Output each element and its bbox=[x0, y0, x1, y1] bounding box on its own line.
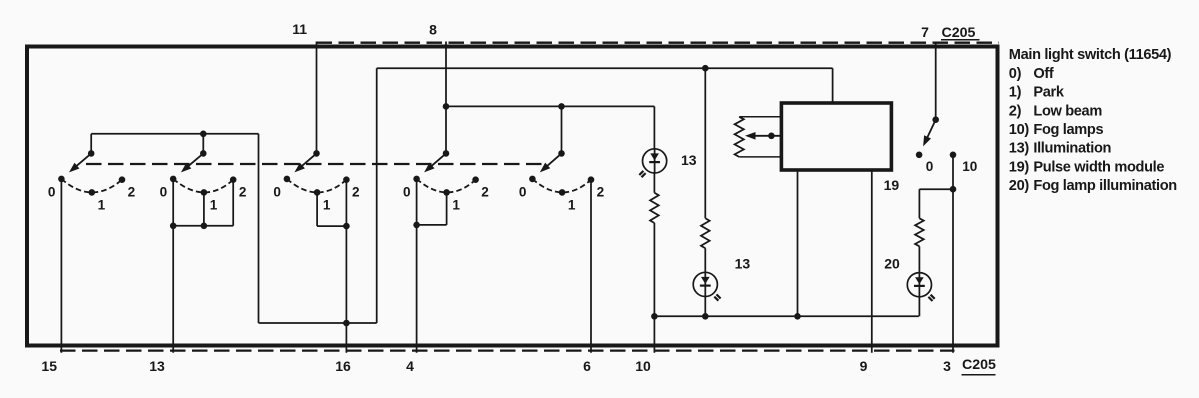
wire: pin 7 lead to fog switch pivot bbox=[935, 42, 937, 120]
svg-text:13: 13 bbox=[735, 255, 751, 271]
wire: lower horizontal run to riser of pulse width module feed bbox=[259, 322, 377, 324]
wire: top illumination resistor to return bus bbox=[653, 223, 655, 353]
svg-text:Fog lamp illumination: Fog lamp illumination bbox=[1033, 178, 1177, 194]
svg-text:3: 3 bbox=[943, 358, 951, 374]
svg-text:Fog lamps: Fog lamps bbox=[1033, 122, 1103, 138]
connector label C205 top bbox=[941, 25, 980, 41]
node: switch 2 tie junction at contact 0 lead bbox=[170, 223, 177, 230]
svg-text:11: 11 bbox=[292, 21, 307, 37]
rotary switch wafer 5 (pin 6) bbox=[519, 150, 605, 212]
svg-text:C205: C205 bbox=[942, 25, 976, 41]
wire: fog lamp illumination branch to resistor bbox=[918, 189, 920, 218]
mechanical coupling dashed line bbox=[86, 163, 544, 165]
wire: pin 13 lead from switch 2 contact 0 bbox=[172, 179, 174, 353]
node: return bus at pin 10 lead bbox=[651, 313, 658, 320]
legend text block bbox=[1009, 47, 1177, 194]
wire: pin 3 lead from fog switch contact 10 bbox=[952, 155, 954, 353]
svg-text:9: 9 bbox=[860, 358, 868, 374]
resistor of lower illumination branch bbox=[701, 218, 710, 248]
connector label C205 bottom bbox=[962, 357, 997, 375]
node: junction of pivot feed and switch 2 riser bbox=[200, 131, 207, 138]
wire: pin 4 lead from switch 4 contact 0 bbox=[416, 179, 418, 353]
wire: horizontal feed from switch 1 pivot to switch 2 and down-lead corner bbox=[91, 133, 258, 135]
wire: switch 4 contact 1 drop bbox=[446, 192, 448, 225]
node: return bus at module lead bbox=[794, 313, 801, 320]
svg-text:10: 10 bbox=[635, 358, 651, 374]
svg-text:0: 0 bbox=[926, 159, 934, 174]
svg-text:15: 15 bbox=[41, 358, 57, 374]
wire: pulse width module top lead bbox=[832, 68, 834, 104]
node: junction with pin 16 lead bbox=[343, 320, 350, 327]
svg-text:20: 20 bbox=[884, 255, 900, 271]
svg-text:1: 1 bbox=[568, 198, 576, 213]
wire: return bus bbox=[654, 315, 919, 317]
resistor of upper illumination lamp bbox=[650, 193, 659, 223]
svg-text:10: 10 bbox=[962, 159, 977, 174]
svg-text:10): 10) bbox=[1009, 122, 1030, 138]
svg-text:8: 8 bbox=[429, 21, 437, 37]
rotary switch wafer 3 (pin 16) bbox=[273, 150, 360, 212]
svg-text:19): 19) bbox=[1009, 159, 1030, 175]
svg-text:1: 1 bbox=[323, 198, 331, 213]
wire: fog lamp illumination branch horizontal bbox=[919, 188, 953, 190]
wire: illumination branch drop to resistor bbox=[704, 68, 706, 218]
svg-text:0: 0 bbox=[519, 184, 527, 199]
LED indicator 13 (lower illumination lamp) bbox=[693, 272, 720, 300]
rotary switch wafer 1 (park feed) bbox=[48, 150, 136, 212]
svg-text:16: 16 bbox=[335, 358, 351, 374]
svg-text:Pulse width module: Pulse width module bbox=[1033, 159, 1164, 175]
svg-text:Off: Off bbox=[1033, 66, 1054, 82]
fog lamp switch (pins 7/3) bbox=[916, 116, 978, 174]
svg-text:1: 1 bbox=[210, 198, 218, 213]
wire: illumination branch resistor to LED bbox=[704, 248, 706, 272]
wire: switch 4 contact tie bus bbox=[417, 224, 447, 226]
svg-text:0: 0 bbox=[160, 184, 168, 199]
LED indicator 20 (fog lamp illumination) bbox=[907, 273, 934, 301]
wire: pin 9 lead from pulse width module bbox=[871, 170, 873, 353]
svg-text:13: 13 bbox=[149, 358, 165, 374]
wire: illumination branch LED to return bus bbox=[704, 297, 706, 317]
wire: pin 10 lead / illumination return drop bbox=[653, 106, 655, 148]
svg-text:C205: C205 bbox=[962, 357, 996, 373]
svg-text:2: 2 bbox=[239, 185, 247, 200]
svg-text:1): 1) bbox=[1009, 85, 1022, 101]
resistor of fog lamp illumination branch bbox=[915, 218, 924, 246]
svg-text:1: 1 bbox=[98, 198, 106, 213]
potentiometer wiper arrow bbox=[745, 132, 781, 140]
svg-text:0: 0 bbox=[48, 184, 56, 199]
node: junction of module feed and illumination lamp branch bbox=[702, 65, 709, 72]
svg-text:13: 13 bbox=[681, 152, 697, 168]
node: junction switch 5 riser and illumination feed bbox=[558, 103, 565, 110]
wire: pin 6 lead from switch 5 contact 2 bbox=[590, 180, 592, 353]
svg-text:2: 2 bbox=[128, 185, 136, 200]
wire: switch 2 contact 1 drop bbox=[203, 192, 205, 225]
svg-text:4: 4 bbox=[406, 358, 414, 374]
node: junction fog lamp illumination branch on pin 3 lead bbox=[950, 186, 957, 193]
wire: illumination feed from pin 8 to top LED drop bbox=[446, 105, 654, 107]
wire: switch 5 pivot riser bbox=[561, 106, 563, 153]
rotary switch wafer 2 (pin 13) bbox=[160, 150, 247, 212]
potentiometer inside module 19 bbox=[735, 117, 744, 157]
LED indicator 13 (upper illumination lamp) bbox=[639, 149, 666, 177]
wire: switch 2 contact tie bus bbox=[173, 225, 233, 227]
wire: potentiometer top lead bbox=[739, 116, 781, 118]
wire: module bottom-left lead to return bus bbox=[797, 170, 799, 317]
svg-text:Low beam: Low beam bbox=[1033, 103, 1102, 119]
svg-text:20): 20) bbox=[1009, 178, 1030, 194]
svg-text:0): 0) bbox=[1009, 66, 1022, 82]
connector C205 bottom dashed line bbox=[60, 349, 955, 351]
node: switch 4 tie junction on pin 4 lead bbox=[413, 222, 420, 229]
connector C205 top dashed line bbox=[317, 42, 1000, 44]
svg-text:0: 0 bbox=[273, 184, 281, 199]
main light switch assembly box bbox=[27, 47, 998, 346]
svg-text:2: 2 bbox=[352, 185, 360, 200]
node: switch 3 tie junction on pin 16 lead bbox=[343, 223, 350, 230]
rotary switch wafer 4 (pin 4) bbox=[403, 150, 489, 212]
svg-text:2): 2) bbox=[1009, 103, 1022, 119]
node: junction pin 8 line and illumination feed bbox=[443, 103, 450, 110]
wire: top illumination LED to resistor bbox=[653, 173, 655, 193]
wire: switch 1 pivot riser bbox=[90, 134, 92, 154]
wire: switch 3 contact 1 drop bbox=[316, 192, 318, 226]
wire: fog lamp resistor to LED bbox=[918, 246, 920, 272]
wire: pin 16 lead from switch 3 contact 2 bbox=[345, 180, 347, 353]
svg-text:19: 19 bbox=[884, 177, 900, 193]
wire: switch 3 contact tie bus bbox=[317, 225, 346, 227]
wire: fog lamp LED to return bus bbox=[918, 297, 920, 317]
svg-text:13): 13) bbox=[1009, 141, 1030, 157]
svg-text:2: 2 bbox=[597, 185, 605, 200]
node: return bus at illumination branch bbox=[702, 313, 709, 320]
wire: potentiometer bottom lead bbox=[739, 156, 781, 158]
wire: riser from lower run to module feed line bbox=[376, 68, 378, 323]
wire: pin 15 lead from switch 1 contact 0 bbox=[60, 179, 62, 353]
svg-text:0: 0 bbox=[403, 184, 411, 199]
svg-text:Park: Park bbox=[1033, 85, 1064, 101]
wire: module feed line to pulse width module bbox=[377, 67, 833, 69]
wire: vertical drop from pivot feed to lower run bbox=[258, 134, 260, 323]
wire: switch 2 contact 2 drop bbox=[232, 180, 234, 226]
pulse width module U19 box bbox=[781, 103, 891, 170]
svg-text:2: 2 bbox=[481, 185, 489, 200]
svg-text:7: 7 bbox=[921, 24, 929, 40]
wire: switch 2 pivot riser bbox=[202, 134, 204, 154]
node: switch 2 tie junction at contact 1 lead bbox=[201, 223, 208, 230]
wire: pin 8 lead to switch 4 pivot bbox=[445, 42, 447, 154]
svg-text:Main light switch (11654): Main light switch (11654) bbox=[1009, 47, 1172, 63]
svg-text:Illumination: Illumination bbox=[1033, 141, 1111, 157]
svg-text:1: 1 bbox=[452, 198, 460, 213]
wire: pin 11 lead to switch 3 pivot bbox=[316, 42, 318, 154]
svg-text:6: 6 bbox=[583, 358, 591, 374]
